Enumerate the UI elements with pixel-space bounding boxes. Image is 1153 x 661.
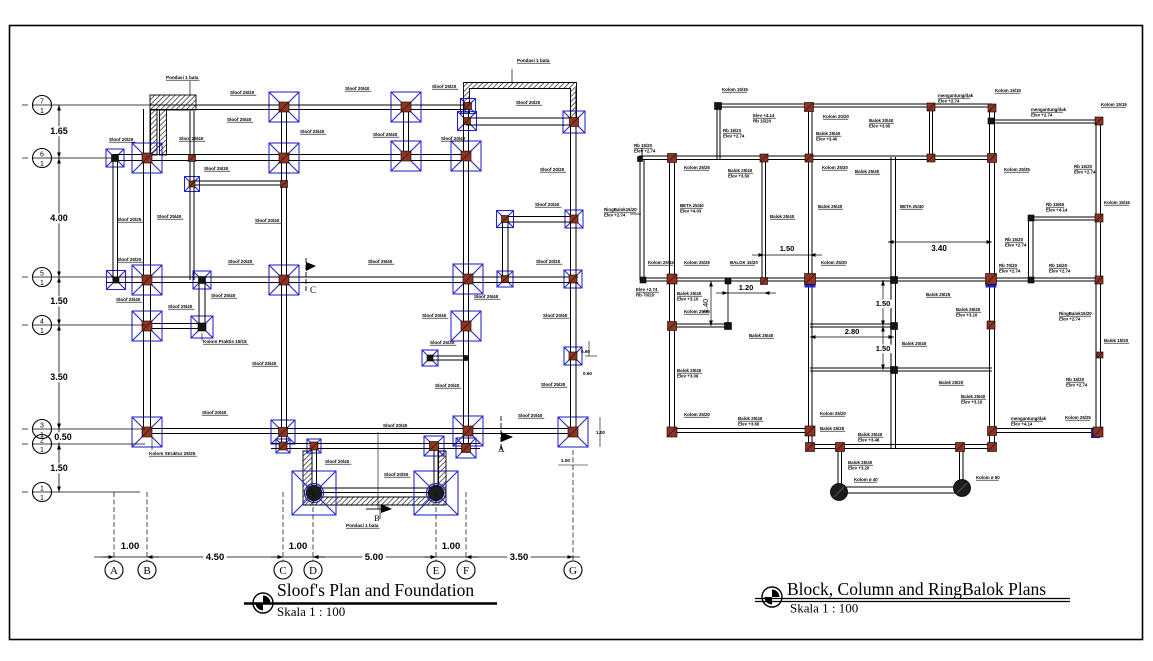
svg-text:Elev +2.74: Elev +2.74 (634, 149, 656, 154)
svg-text:A: A (498, 444, 505, 454)
svg-text:Pondasi 1 bata: Pondasi 1 bata (166, 75, 199, 80)
svg-text:1.00: 1.00 (442, 541, 461, 552)
svg-text:Elev +3.40: Elev +3.40 (816, 137, 838, 142)
svg-text:1.65: 1.65 (50, 126, 68, 136)
svg-text:Balok 25/40: Balok 25/40 (855, 169, 880, 174)
svg-text:Elev +3.48: Elev +3.48 (858, 438, 880, 443)
svg-text:Sloof 20/40: Sloof 20/40 (518, 413, 543, 418)
svg-text:Balok 25/40: Balok 25/40 (738, 416, 763, 421)
svg-text:Kolom 15/15: Kolom 15/15 (995, 88, 1021, 93)
svg-text:Elev +2.74: Elev +2.74 (1074, 170, 1096, 175)
svg-text:F: F (463, 565, 469, 577)
svg-text:Balok 25/40: Balok 25/40 (677, 291, 702, 296)
svg-text:RingBalok15/20: RingBalok15/20 (604, 207, 637, 212)
svg-text:Elev +2.74: Elev +2.74 (1031, 113, 1053, 118)
svg-text:0.50: 0.50 (54, 432, 72, 442)
svg-text:Balok 20/40: Balok 20/40 (902, 341, 927, 346)
svg-text:Elev +3.60: Elev +3.60 (738, 422, 760, 427)
svg-text:Kolom 25/15: Kolom 25/15 (648, 260, 674, 265)
svg-text:1: 1 (40, 108, 44, 115)
svg-text:Elev +4.14: Elev +4.14 (753, 113, 775, 118)
svg-text:Sloof 20/40: Sloof 20/40 (325, 459, 350, 464)
svg-text:Rb 15/20: Rb 15/20 (1066, 377, 1085, 382)
svg-text:Elev +4.14: Elev +4.14 (1046, 208, 1068, 213)
svg-text:1.00: 1.00 (289, 541, 308, 552)
svg-text:C: C (310, 285, 316, 295)
svg-text:Kolom 25/25: Kolom 25/25 (684, 309, 710, 314)
svg-text:Rb 70/20: Rb 70/20 (636, 293, 655, 298)
svg-text:D: D (309, 565, 317, 577)
svg-text:Balok 25/40: Balok 25/40 (677, 368, 702, 373)
svg-text:1.50: 1.50 (876, 299, 891, 308)
svg-text:Rb 15/20: Rb 15/20 (723, 128, 742, 133)
svg-text:Balok 25/40: Balok 25/40 (956, 307, 981, 312)
svg-text:Elev +2.74: Elev +2.74 (636, 287, 658, 292)
svg-text:Rb 15/20: Rb 15/20 (1005, 237, 1024, 242)
svg-text:1: 1 (40, 161, 44, 168)
svg-text:Sloof 25/40: Sloof 25/40 (168, 304, 193, 309)
svg-text:Kolom 25/20: Kolom 25/20 (822, 165, 848, 170)
svg-text:Rb 15/65: Rb 15/65 (1046, 202, 1065, 207)
svg-text:Balok 25/40: Balok 25/40 (961, 394, 986, 399)
svg-text:E: E (433, 565, 440, 577)
svg-text:Sloof 20/40: Sloof 20/40 (255, 218, 280, 223)
svg-text:Sloof 20/20: Sloof 20/20 (516, 100, 541, 105)
svg-text:Elev +2.74: Elev +2.74 (1059, 317, 1081, 322)
svg-text:BALOK 15/20: BALOK 15/20 (730, 260, 758, 265)
svg-text:4.00: 4.00 (50, 213, 68, 223)
svg-text:Elev +3.10: Elev +3.10 (956, 313, 978, 318)
svg-text:1.20: 1.20 (739, 283, 754, 292)
svg-text:mengantung/dak: mengantung/dak (938, 93, 974, 98)
svg-text:Sloof 20/40: Sloof 20/40 (422, 313, 447, 318)
svg-text:Rb 15/20: Rb 15/20 (634, 143, 653, 148)
svg-text:Sloof 20/40: Sloof 20/40 (543, 313, 568, 318)
svg-text:Rb 15/20: Rb 15/20 (1074, 164, 1093, 169)
svg-text:1.50: 1.50 (780, 244, 795, 253)
svg-text:BETA 25/40: BETA 25/40 (680, 203, 704, 208)
svg-text:Elev +2.74: Elev +2.74 (604, 213, 626, 218)
svg-text:Sloof's Plan and Foundation: Sloof's Plan and Foundation (277, 580, 474, 600)
svg-text:Kolom 25/25: Kolom 25/25 (684, 165, 710, 170)
svg-text:Balok 25/25: Balok 25/25 (926, 292, 951, 297)
svg-text:Kolom Praktis 15/15: Kolom Praktis 15/15 (203, 339, 247, 344)
svg-text:Elev +2.74: Elev +2.74 (938, 99, 960, 104)
svg-text:Block, Column and RingBalok Pl: Block, Column and RingBalok Plans (787, 579, 1046, 599)
svg-text:Kolom 25/20: Kolom 25/20 (684, 412, 710, 417)
svg-text:1: 1 (40, 447, 44, 454)
svg-text:Balok 25/40: Balok 25/40 (818, 204, 843, 209)
svg-text:Balok 20/40: Balok 20/40 (869, 118, 894, 123)
svg-text:Kolom 25/20: Kolom 25/20 (821, 260, 847, 265)
svg-text:Elev +2.74: Elev +2.74 (1005, 243, 1027, 248)
svg-text:4: 4 (40, 319, 44, 326)
svg-text:Elev +2.74: Elev +2.74 (1066, 383, 1088, 388)
svg-text:G: G (569, 565, 577, 577)
svg-text:Balok 25/40: Balok 25/40 (816, 131, 841, 136)
svg-text:Elev +3.05: Elev +3.05 (869, 124, 891, 129)
svg-text:3.40: 3.40 (931, 244, 947, 253)
svg-text:Sloof 25/40: Sloof 25/40 (227, 117, 252, 122)
svg-text:2.80: 2.80 (845, 327, 860, 336)
svg-text:RingBalok15/20: RingBalok15/20 (1059, 311, 1092, 316)
svg-text:Elev +3.10: Elev +3.10 (677, 297, 699, 302)
svg-text:Elev +2.74: Elev +2.74 (1049, 269, 1071, 274)
svg-text:Sloof 25/30: Sloof 25/30 (204, 166, 229, 171)
svg-text:Sloof 25/20: Sloof 25/20 (432, 84, 457, 89)
svg-text:Kolom ø 40: Kolom ø 40 (854, 477, 878, 482)
svg-text:7: 7 (40, 99, 44, 106)
svg-text:Elev +3.09: Elev +3.09 (677, 374, 699, 379)
svg-text:1.50: 1.50 (876, 344, 891, 353)
svg-text:1: 1 (40, 328, 44, 335)
svg-text:Kolom ø 50: Kolom ø 50 (976, 475, 1000, 480)
svg-text:Kolom 25/25: Kolom 25/25 (1065, 415, 1091, 420)
svg-text:Sloof 25/40: Sloof 25/40 (157, 214, 182, 219)
svg-text:Sloof 20/25: Sloof 20/25 (117, 217, 142, 222)
svg-text:Sloof 20/40: Sloof 20/40 (441, 136, 466, 141)
svg-text:Sloof 25/40: Sloof 25/40 (211, 293, 236, 298)
svg-text:Kolom Struktur 25/25: Kolom Struktur 25/25 (149, 451, 196, 456)
svg-text:5.00: 5.00 (365, 552, 384, 563)
svg-text:Sloof 25/20: Sloof 25/20 (230, 90, 255, 95)
svg-text:Sloof 20/20: Sloof 20/20 (540, 167, 565, 172)
svg-text:1: 1 (40, 280, 44, 287)
svg-text:Sloof 20/40: Sloof 20/40 (383, 423, 408, 428)
svg-text:0.60: 0.60 (583, 371, 592, 376)
svg-text:Sloof 20/25: Sloof 20/25 (109, 137, 134, 142)
svg-text:Sloof 20/40: Sloof 20/40 (202, 410, 227, 415)
svg-text:BETA 25/40: BETA 25/40 (900, 204, 924, 209)
svg-text:1: 1 (40, 486, 44, 493)
svg-text:Rb 15/20: Rb 15/20 (753, 119, 772, 124)
svg-text:Pondasi 1 bata: Pondasi 1 bata (517, 58, 550, 63)
svg-text:Sloof 25/40: Sloof 25/40 (300, 129, 325, 134)
svg-text:Balok 25/40: Balok 25/40 (858, 432, 883, 437)
svg-text:C: C (279, 565, 286, 577)
svg-text:Pondasi 1 bata: Pondasi 1 bata (346, 523, 379, 528)
svg-text:3: 3 (40, 423, 44, 430)
svg-text:Elev +3.10: Elev +3.10 (961, 400, 983, 405)
svg-text:Sloof 25/40: Sloof 25/40 (373, 132, 398, 137)
svg-text:3.50: 3.50 (510, 552, 529, 563)
svg-text:Sloof 25/40: Sloof 25/40 (252, 361, 277, 366)
svg-text:Rb 15/20: Rb 15/20 (1049, 263, 1068, 268)
svg-text:Balok 25/25: Balok 25/25 (820, 426, 845, 431)
svg-text:Sloof 20/40: Sloof 20/40 (345, 86, 370, 91)
svg-text:Skala 1 : 100: Skala 1 : 100 (277, 604, 345, 619)
svg-text:3.50: 3.50 (50, 372, 68, 382)
svg-text:5: 5 (40, 271, 44, 278)
svg-text:1.50: 1.50 (50, 463, 68, 473)
svg-text:Elev +4.14: Elev +4.14 (1011, 422, 1033, 427)
svg-text:1: 1 (40, 495, 44, 502)
svg-text:Balok 25/40: Balok 25/40 (728, 168, 753, 173)
svg-text:Kolom 15/15: Kolom 15/15 (1104, 200, 1130, 205)
svg-text:B: B (143, 565, 150, 577)
svg-text:Skala 1 : 100: Skala 1 : 100 (790, 601, 858, 616)
svg-text:Sloof 25/30: Sloof 25/30 (541, 382, 566, 387)
svg-text:Rb 70/20: Rb 70/20 (999, 263, 1018, 268)
svg-text:Balok 15/20: Balok 15/20 (1104, 338, 1129, 343)
svg-text:Sloof 20/30: Sloof 20/30 (384, 472, 409, 477)
svg-text:1.00: 1.00 (121, 541, 140, 552)
svg-text:Balok 25/40: Balok 25/40 (770, 214, 795, 219)
svg-text:Sloof 20/40: Sloof 20/40 (435, 383, 460, 388)
svg-text:Elev +4.03: Elev +4.03 (680, 209, 702, 214)
svg-text:Elev +3.20: Elev +3.20 (848, 466, 870, 471)
svg-text:Balok 25/40: Balok 25/40 (848, 460, 873, 465)
svg-text:Balok 25/40: Balok 25/40 (749, 333, 774, 338)
svg-text:Elev +2.74: Elev +2.74 (999, 269, 1021, 274)
svg-text:1.50: 1.50 (50, 296, 68, 306)
svg-text:2: 2 (40, 438, 44, 445)
svg-text:Sloof 20/20: Sloof 20/20 (536, 259, 561, 264)
svg-text:Sloof 25/20: Sloof 25/20 (117, 257, 142, 262)
svg-text:Sloof 20/40: Sloof 20/40 (228, 259, 253, 264)
svg-text:Sloof 20/40: Sloof 20/40 (535, 202, 560, 207)
svg-text:Kolom 15/15: Kolom 15/15 (1101, 102, 1127, 107)
svg-text:Balok 25/20: Balok 25/20 (939, 380, 964, 385)
svg-text:Kolom 20/20: Kolom 20/20 (823, 114, 849, 119)
svg-text:B: B (374, 513, 380, 523)
svg-text:Elev +3.50: Elev +3.50 (728, 174, 750, 179)
svg-text:1.00: 1.00 (561, 458, 570, 463)
svg-text:Elev +2.74: Elev +2.74 (723, 134, 745, 139)
svg-text:Sloof 25/30: Sloof 25/30 (430, 340, 455, 345)
svg-text:1.00: 1.00 (596, 430, 605, 435)
svg-text:Sloof 25/40: Sloof 25/40 (474, 294, 499, 299)
svg-text:Sloof 25/40: Sloof 25/40 (368, 259, 393, 264)
svg-text:Kolom 25/25: Kolom 25/25 (684, 260, 710, 265)
svg-text:mengantung/dak: mengantung/dak (1031, 107, 1067, 112)
svg-text:6: 6 (40, 152, 44, 159)
svg-text:Sloof 25/40: Sloof 25/40 (116, 297, 141, 302)
svg-text:Sloof 25/40: Sloof 25/40 (179, 136, 204, 141)
svg-text:mengantung/dak: mengantung/dak (1011, 416, 1047, 421)
svg-text:Kolom 25/25: Kolom 25/25 (1004, 167, 1030, 172)
svg-text:Kolom 25/20: Kolom 25/20 (820, 411, 846, 416)
svg-text:4.50: 4.50 (206, 552, 225, 563)
svg-text:A: A (110, 565, 118, 577)
svg-text:Kolom 15/15: Kolom 15/15 (722, 87, 748, 92)
